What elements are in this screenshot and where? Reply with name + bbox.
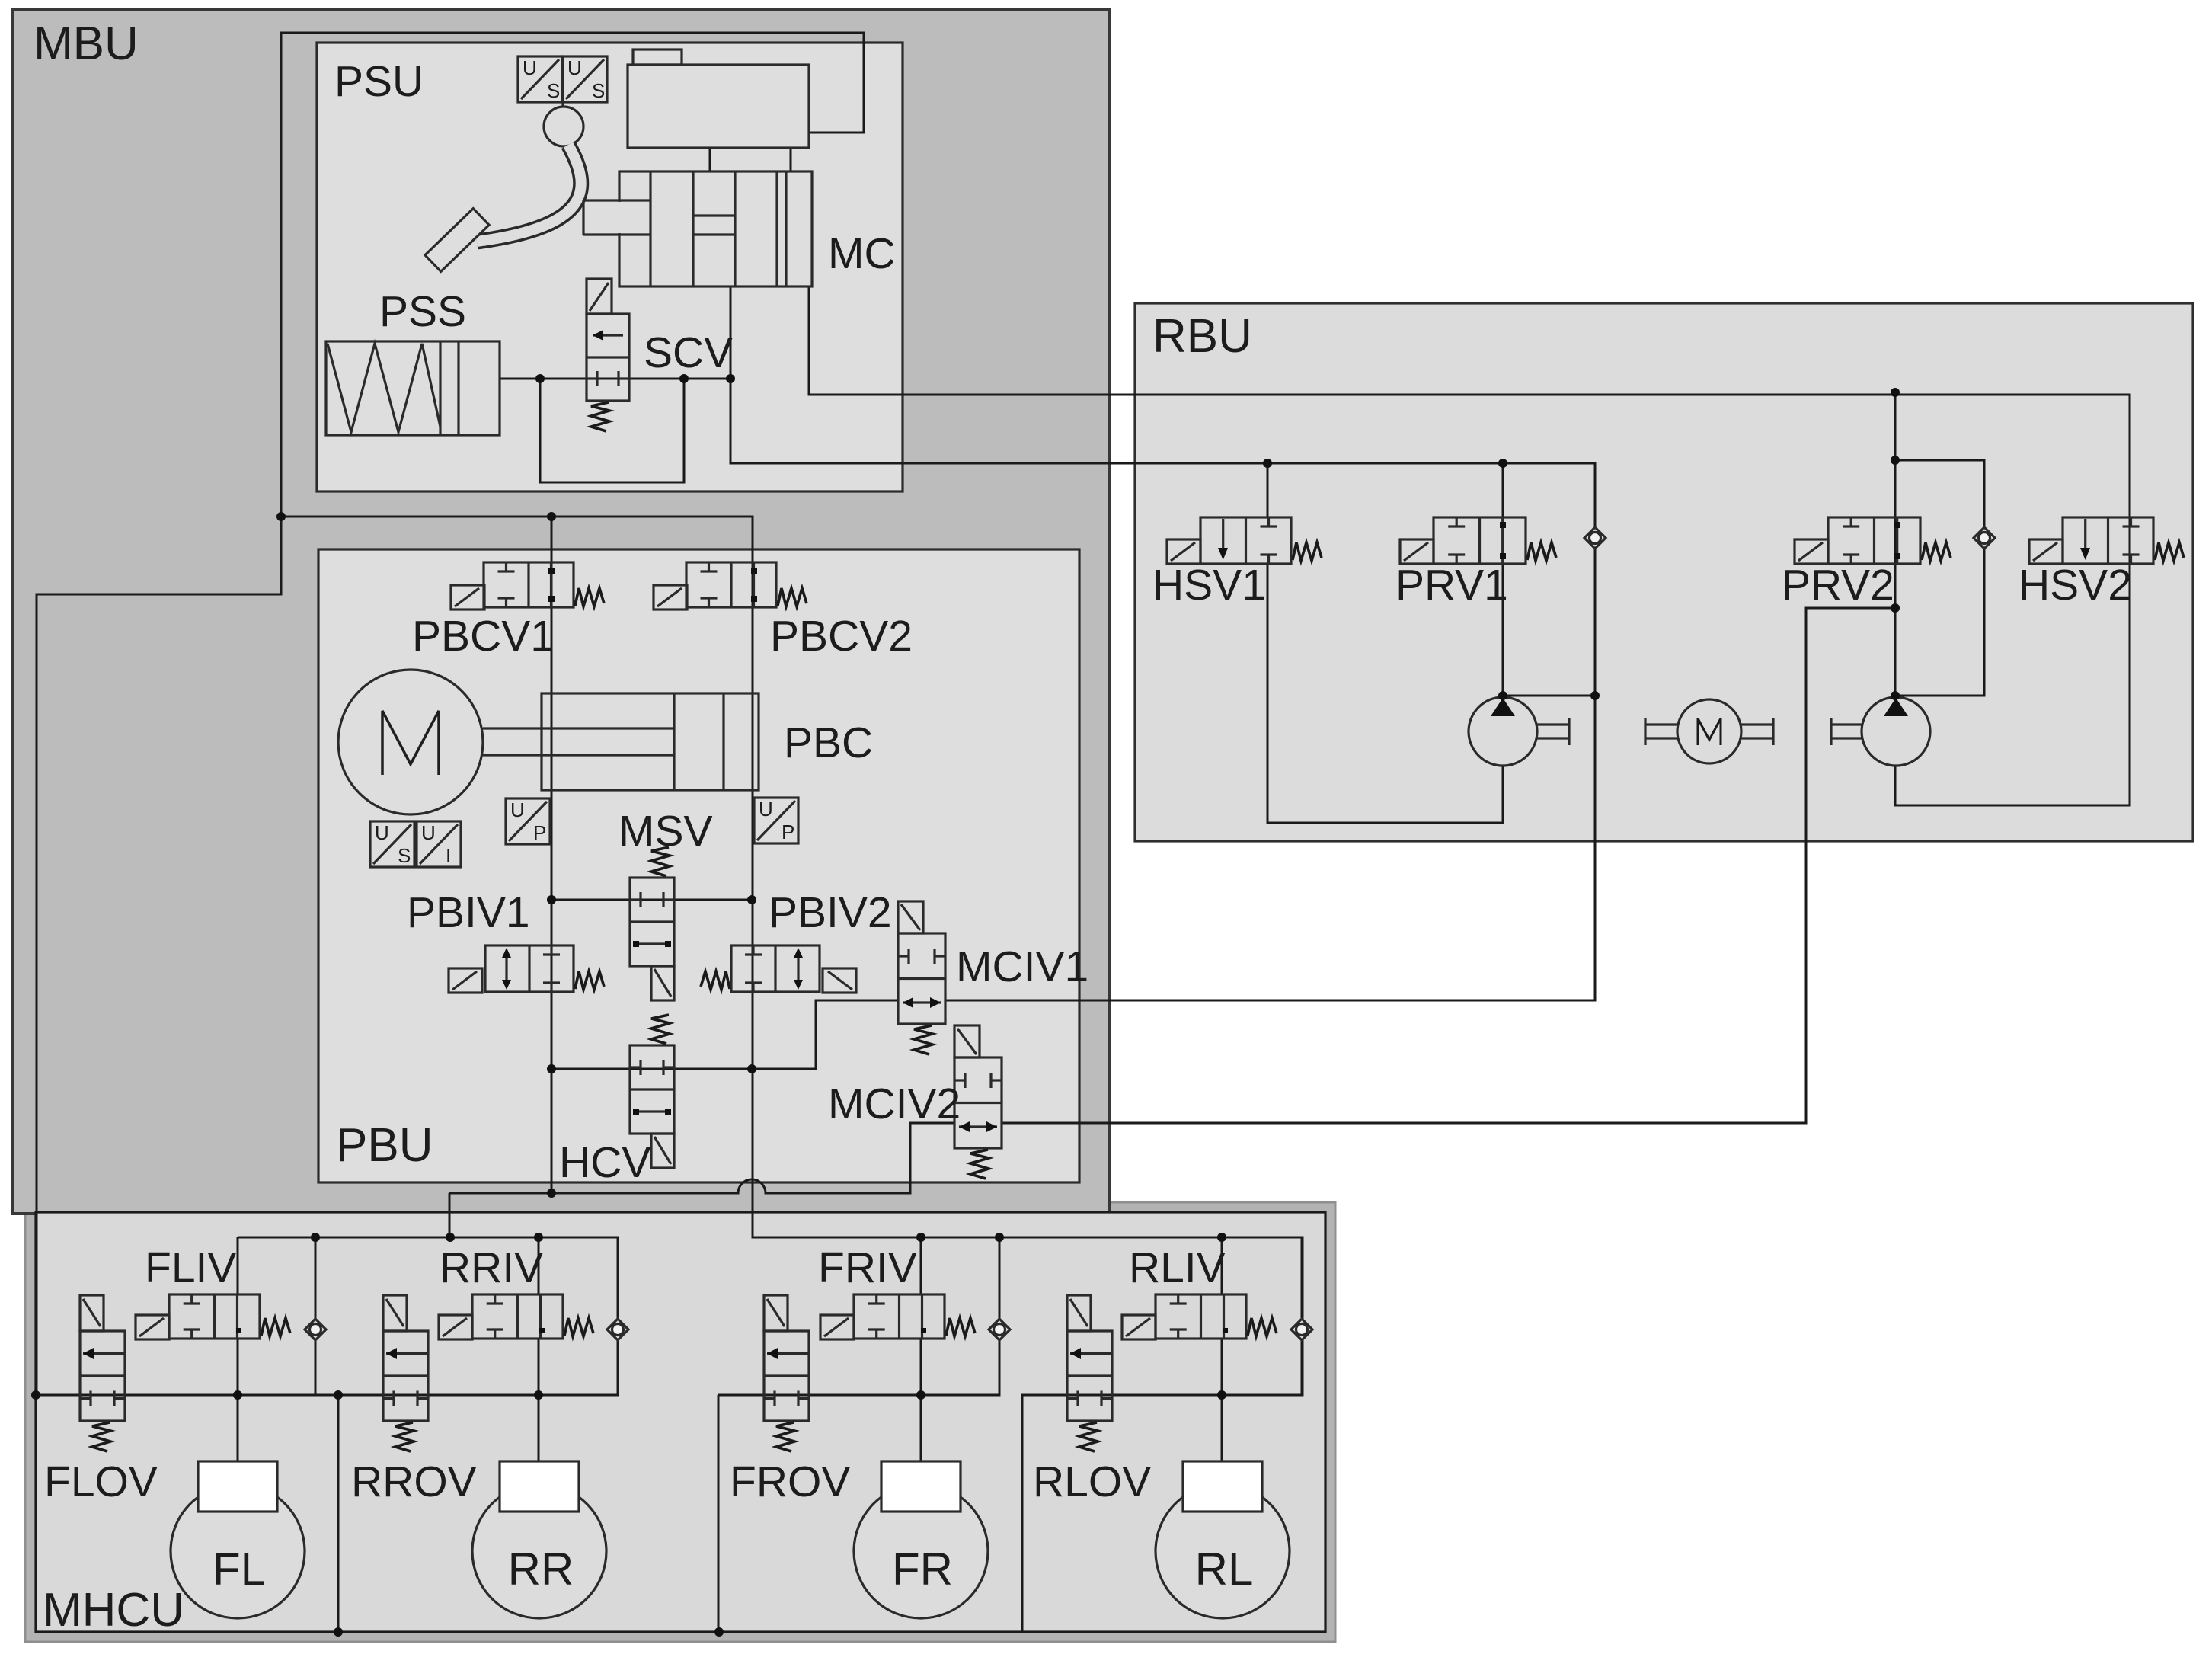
- svg-text:HCV: HCV: [559, 1138, 650, 1187]
- svg-text:HSV2: HSV2: [2019, 561, 2132, 610]
- svg-text:PRV1: PRV1: [1395, 561, 1508, 610]
- svg-text:U: U: [523, 56, 537, 79]
- svg-text:RROV: RROV: [351, 1457, 477, 1506]
- svg-text:PBCV2: PBCV2: [770, 612, 913, 661]
- svg-text:P: P: [533, 821, 546, 844]
- svg-text:U: U: [759, 798, 773, 821]
- svg-text:S: S: [398, 844, 411, 867]
- svg-text:U: U: [375, 821, 389, 844]
- svg-text:P: P: [782, 821, 794, 843]
- svg-text:PRV2: PRV2: [1782, 561, 1894, 610]
- svg-text:S: S: [547, 79, 560, 102]
- svg-text:U: U: [567, 56, 582, 79]
- svg-text:SCV: SCV: [644, 328, 733, 377]
- svg-text:RRIV: RRIV: [440, 1243, 543, 1292]
- svg-text:PBU: PBU: [336, 1119, 433, 1172]
- svg-text:MHCU: MHCU: [43, 1584, 184, 1637]
- svg-text:RLIV: RLIV: [1129, 1243, 1226, 1292]
- svg-text:RL: RL: [1195, 1544, 1254, 1595]
- svg-text:PBIV2: PBIV2: [769, 888, 892, 937]
- svg-text:PSU: PSU: [334, 57, 424, 106]
- svg-text:MSV: MSV: [619, 807, 713, 856]
- svg-text:U: U: [421, 821, 436, 844]
- svg-text:S: S: [592, 79, 605, 102]
- svg-text:FL: FL: [213, 1544, 266, 1595]
- svg-text:RLOV: RLOV: [1033, 1457, 1151, 1506]
- svg-text:MBU: MBU: [34, 18, 139, 70]
- svg-text:MC: MC: [828, 229, 896, 278]
- svg-text:MCIV1: MCIV1: [956, 942, 1088, 991]
- svg-text:PBC: PBC: [784, 718, 873, 767]
- svg-text:I: I: [446, 844, 451, 867]
- svg-text:PBCV1: PBCV1: [412, 612, 555, 661]
- svg-text:PBIV1: PBIV1: [407, 888, 530, 937]
- svg-text:FROV: FROV: [730, 1457, 850, 1506]
- svg-text:PSS: PSS: [379, 287, 466, 336]
- svg-text:FR: FR: [892, 1544, 953, 1595]
- svg-text:MCIV2: MCIV2: [828, 1080, 961, 1128]
- svg-text:FLIV: FLIV: [145, 1243, 236, 1292]
- svg-text:FLOV: FLOV: [44, 1457, 158, 1506]
- svg-text:RBU: RBU: [1152, 310, 1252, 363]
- svg-text:U: U: [510, 798, 525, 821]
- svg-text:HSV1: HSV1: [1152, 561, 1266, 610]
- svg-text:FRIV: FRIV: [818, 1243, 917, 1292]
- svg-text:RR: RR: [508, 1544, 574, 1595]
